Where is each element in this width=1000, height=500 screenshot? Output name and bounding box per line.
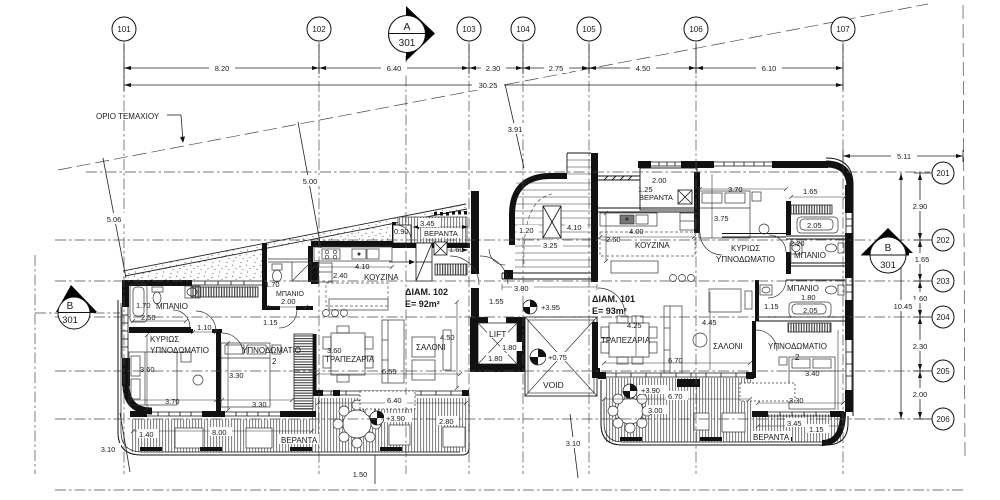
veranda north 102 compartment 0.90 xyxy=(393,225,411,243)
svg-text:B: B xyxy=(885,243,892,254)
kitchen 102 north wall xyxy=(311,241,392,247)
dim line 1.60 hall 102 xyxy=(448,249,468,251)
svg-text:107: 107 xyxy=(836,25,850,34)
west wall black lower segment xyxy=(122,358,130,386)
svg-text:2.05: 2.05 xyxy=(807,221,822,230)
svg-text:2.20: 2.20 xyxy=(790,239,805,248)
svg-text:2.75: 2.75 xyxy=(549,64,564,73)
grid line 202 horizontal xyxy=(55,239,930,241)
apt101 north windows xyxy=(651,162,772,166)
apt102 north wall xyxy=(122,280,192,286)
svg-text:3.70: 3.70 xyxy=(728,185,743,194)
stair top edge xyxy=(567,153,591,173)
svg-text:6.40: 6.40 xyxy=(387,64,402,73)
svg-text:+3.90: +3.90 xyxy=(386,414,405,423)
stair treads xyxy=(515,160,591,267)
svg-text:301: 301 xyxy=(62,315,78,326)
svg-text:ΚΟΥΖΙΝΑ: ΚΟΥΖΙΝΑ xyxy=(364,273,399,282)
apt101 east wall segments xyxy=(845,185,853,213)
dim line 1.65 bath 101 xyxy=(791,196,845,198)
dim line 6.40 veranda 102 xyxy=(318,402,466,404)
sofa 101 xyxy=(664,306,682,373)
stipple band top slanted xyxy=(123,204,470,280)
grid bubble 102 xyxy=(307,17,331,41)
svg-text:3.25: 3.25 xyxy=(543,241,558,250)
grid line 105 vertical xyxy=(588,42,590,474)
dim text 8.20 xyxy=(209,62,235,73)
fridge 101 xyxy=(680,213,695,230)
dim text 3.10 left xyxy=(95,443,121,454)
dim line 2.60 kitchen 101 vertical xyxy=(605,213,607,261)
right dimension line 5.11 xyxy=(843,155,963,157)
toilet bath1 102 xyxy=(152,287,163,292)
svg-text:1.20: 1.20 xyxy=(519,226,534,235)
svg-text:2.30: 2.30 xyxy=(486,64,501,73)
stair eye x-box xyxy=(543,206,561,238)
veranda 101 north walls xyxy=(598,168,697,210)
dim text 2.30 right xyxy=(907,340,933,351)
wall between bedrooms 102 xyxy=(216,331,221,413)
bathtub bath1 101 xyxy=(797,217,838,233)
dim line 6.70 living 101 xyxy=(604,362,750,364)
lift interior x xyxy=(478,323,517,364)
svg-text:3.75: 3.75 xyxy=(714,214,729,223)
bedroom south wall black segments xyxy=(130,411,147,417)
bedroom2 101 corner arc thick xyxy=(822,412,843,443)
svg-text:8.20: 8.20 xyxy=(215,64,230,73)
dim 5.00 slanted line xyxy=(298,122,321,248)
bath1 101 partition wall xyxy=(786,201,791,235)
svg-text:2.80: 2.80 xyxy=(439,417,454,426)
dim text 5.11 xyxy=(891,150,917,161)
wall bedroom2 to living 102 xyxy=(313,334,317,396)
wardrobe hatch hall 102 xyxy=(435,264,467,275)
level text +3.90 veranda 101 xyxy=(639,385,667,395)
room label veranda 102 xyxy=(279,434,319,445)
dim text 5.00 xyxy=(297,175,323,186)
svg-text:ΔΙΑΜ. 101: ΔΙΑΜ. 101 xyxy=(592,294,635,304)
svg-text:E= 92m²: E= 92m² xyxy=(405,299,440,309)
svg-text:ΒΕΡΑΝΤΑ: ΒΕΡΑΝΤΑ xyxy=(639,193,673,202)
dim line 4.45 living 101 vertical xyxy=(709,292,711,370)
stair dims xyxy=(517,225,539,235)
svg-text:205: 205 xyxy=(936,367,950,376)
nightstand master 101 xyxy=(752,192,761,201)
svg-text:ΥΠΝΟΔΩΜΑΤΙΟ: ΥΠΝΟΔΩΜΑΤΙΟ xyxy=(242,346,301,355)
bathtub bath1 102 xyxy=(130,284,147,322)
dim 6.40 veranda 102 xyxy=(385,395,407,405)
svg-text:ΜΠΑΝΙΟ: ΜΠΑΝΙΟ xyxy=(787,284,819,293)
svg-text:2.30: 2.30 xyxy=(913,342,928,351)
dim line 1.10 corridor 102 xyxy=(193,331,216,333)
dim text 1.65 right xyxy=(909,253,935,264)
svg-text:3.30: 3.30 xyxy=(252,400,267,409)
property line right vertical xyxy=(963,5,965,456)
dim text 4.50 xyxy=(630,62,656,73)
dim line 3.30 bedroom2 102 xyxy=(222,399,292,401)
svg-text:ΚΟΥΖΙΝΑ: ΚΟΥΖΙΝΑ xyxy=(635,241,670,250)
nightstand bed2 102 xyxy=(272,345,281,354)
left datum vertical xyxy=(34,255,36,474)
dim line 3.30 bedroom2 102 vertical xyxy=(227,343,229,410)
dining table 102 xyxy=(331,333,365,375)
dim line 4.25 dining 101 vertical xyxy=(635,318,637,356)
svg-text:ΥΠΝΟΔΩΜΑΤΙΟ: ΥΠΝΟΔΩΜΑΤΙΟ xyxy=(768,342,827,351)
svg-text:2.00: 2.00 xyxy=(913,390,928,399)
corridor 3.80 dim line xyxy=(502,284,597,290)
veranda 102 round table xyxy=(343,410,371,438)
veranda 101 chairs xyxy=(608,389,652,433)
bar stools 101 xyxy=(670,275,677,282)
door arc apt102 entrance xyxy=(480,256,508,284)
dim text 6.40 xyxy=(381,62,407,73)
svg-text:E= 93m²: E= 93m² xyxy=(592,306,627,316)
dim 2.80 veranda 102 xyxy=(437,416,459,426)
section line B left horizontal xyxy=(35,312,120,314)
svg-text:ΣΑΛΟΝΙ: ΣΑΛΟΝΙ xyxy=(416,343,446,352)
svg-text:1.70: 1.70 xyxy=(136,301,151,310)
bed master 101 xyxy=(699,191,750,238)
bathtub bath2 101 xyxy=(789,302,831,317)
dim text 2.30 xyxy=(481,62,506,73)
bath2 102 south wall xyxy=(262,306,280,310)
wardrobe hatch master 101 xyxy=(788,205,832,214)
grid bubble 101 xyxy=(112,17,136,41)
svg-text:2: 2 xyxy=(272,357,277,366)
svg-text:202: 202 xyxy=(936,236,950,245)
armchair 102 xyxy=(412,337,435,357)
svg-text:6.70: 6.70 xyxy=(668,392,683,401)
wardrobe hatch bedroom2 101 xyxy=(788,323,831,332)
svg-text:ΚΥΡΙΩΣ: ΚΥΡΙΩΣ xyxy=(150,335,179,344)
svg-text:1.80: 1.80 xyxy=(502,343,517,352)
level marker void +0.75 xyxy=(530,349,546,365)
svg-text:1.80: 1.80 xyxy=(488,354,503,363)
tv console 102 xyxy=(443,330,451,370)
planters veranda 101 xyxy=(620,437,792,441)
dim text 2.90 xyxy=(907,200,933,211)
dim line 2.20 bath1 101 vertical xyxy=(790,240,792,263)
dim text 30.25 xyxy=(472,79,504,90)
svg-text:1.70: 1.70 xyxy=(265,280,280,289)
west wall window xyxy=(122,307,128,358)
door arc bath1 101 xyxy=(769,235,786,252)
grid line 101 vertical xyxy=(123,42,125,474)
kitchen island 102 xyxy=(329,299,388,310)
label lift xyxy=(487,329,508,339)
dim text 2.00 right xyxy=(907,388,933,399)
svg-text:ΤΡΑΠΕΖΑΡΙΑ: ΤΡΑΠΕΖΑΡΙΑ xyxy=(325,355,375,364)
svg-text:VOID: VOID xyxy=(543,380,564,390)
grid line 204 horizontal xyxy=(55,316,930,318)
sink bath1 102 xyxy=(185,286,200,298)
bed2 101 xyxy=(789,357,835,409)
bath1 102 south wall xyxy=(129,327,191,331)
svg-text:4.50: 4.50 xyxy=(440,333,455,342)
svg-text:LIFT: LIFT xyxy=(489,329,506,339)
section line A vertical xyxy=(405,56,407,474)
window x-box veranda 101 xyxy=(678,190,692,204)
svg-text:1.60: 1.60 xyxy=(449,245,464,254)
bath2 102 west wall xyxy=(262,243,267,310)
svg-text:104: 104 xyxy=(516,25,530,34)
dim 6.70 veranda 101 xyxy=(666,391,688,401)
west wall black top segment xyxy=(122,280,129,307)
svg-text:+0.75: +0.75 xyxy=(548,353,567,362)
door arc veranda n 102 xyxy=(396,225,411,240)
grid bubble 104 xyxy=(511,17,535,41)
chairs dining 102 xyxy=(323,337,331,349)
dim line 3.40 bedroom2 101 vertical xyxy=(837,330,839,410)
veranda 102 parapet outline rounded xyxy=(118,300,469,455)
room label veranda 101 xyxy=(751,431,791,442)
svg-text:+3.95: +3.95 xyxy=(541,303,560,312)
svg-text:301: 301 xyxy=(880,260,896,271)
grid line 205 horizontal xyxy=(55,370,930,372)
stair right wall xyxy=(591,153,598,282)
svg-text:3.40: 3.40 xyxy=(805,369,820,378)
svg-text:2.60: 2.60 xyxy=(606,235,621,244)
void x diagonals xyxy=(525,317,597,396)
svg-text:105: 105 xyxy=(582,25,596,34)
veranda 101 bbq black xyxy=(677,379,700,387)
dim 3.45 veranda 101 xyxy=(785,418,807,428)
living 101 south window wall xyxy=(601,373,752,377)
svg-text:+3.90: +3.90 xyxy=(641,386,660,395)
svg-text:ΜΠΑΝΙΟ: ΜΠΑΝΙΟ xyxy=(794,251,826,260)
svg-text:4.50: 4.50 xyxy=(636,64,651,73)
bath2 102 top shelf xyxy=(268,258,311,260)
svg-text:0.90: 0.90 xyxy=(394,227,409,236)
svg-text:2.90: 2.90 xyxy=(913,202,928,211)
svg-text:201: 201 xyxy=(936,169,950,178)
svg-text:1.10: 1.10 xyxy=(197,323,212,332)
grid line 102 vertical xyxy=(318,42,320,474)
svg-text:ΟΡΙΟ ΤΕΜΑΧΙΟΥ: ΟΡΙΟ ΤΕΜΑΧΙΟΥ xyxy=(96,112,160,121)
svg-text:3.45: 3.45 xyxy=(787,419,802,428)
svg-text:ΣΑΛΟΝΙ: ΣΑΛΟΝΙ xyxy=(713,342,743,351)
apt101 east wall outer line xyxy=(826,158,853,416)
svg-text:6.70: 6.70 xyxy=(668,356,683,365)
bottom datum horizontal xyxy=(55,489,965,491)
dim line 3.70 master 101 xyxy=(700,188,786,190)
living 102 south window wall xyxy=(316,391,468,395)
grid line 103 vertical xyxy=(468,42,470,474)
svg-text:5.06: 5.06 xyxy=(107,215,122,224)
dim text 2.75 xyxy=(544,62,569,73)
svg-text:3.91: 3.91 xyxy=(508,125,523,134)
svg-text:1.15: 1.15 xyxy=(263,318,278,327)
nightstand master 102 xyxy=(181,352,191,362)
veranda 101 parapet outline rounded xyxy=(601,380,848,445)
dim 3.00 veranda 101 xyxy=(646,405,668,415)
void east wall black xyxy=(592,322,598,368)
grid line 104 vertical xyxy=(522,42,524,474)
svg-text:ΒΕΡΑΝΤΑ: ΒΕΡΑΝΤΑ xyxy=(424,229,458,238)
door arc bath2 102 xyxy=(279,310,297,328)
door arc hall 102 xyxy=(450,256,479,285)
dim 8.00 veranda 102 xyxy=(210,427,232,437)
bath2 101 walls xyxy=(755,280,845,321)
svg-text:30.25: 30.25 xyxy=(479,81,498,90)
grid bubble 107 xyxy=(831,17,855,41)
apt102 east wall lower xyxy=(471,288,479,317)
nightstand bed2 101 xyxy=(779,357,787,365)
grid bubble 206 xyxy=(932,408,954,430)
svg-text:3.60: 3.60 xyxy=(140,365,155,374)
bedroom2 101 south wall xyxy=(752,411,768,417)
dim line 6.55 living 102 xyxy=(318,373,460,375)
apt101 north wall segments xyxy=(638,161,651,168)
apt101 top-right corner wall thick xyxy=(826,164,850,188)
label void xyxy=(541,379,566,390)
svg-text:1.15: 1.15 xyxy=(809,425,824,434)
svg-text:203: 203 xyxy=(936,277,950,286)
dining table 101 xyxy=(609,323,649,357)
svg-text:3.00: 3.00 xyxy=(648,406,663,415)
svg-text:6.40: 6.40 xyxy=(387,396,402,405)
dim line 2.00 bath2 102 xyxy=(267,306,306,308)
shower bath2 102 xyxy=(292,262,311,281)
svg-text:B: B xyxy=(67,301,74,312)
svg-text:8.00: 8.00 xyxy=(212,428,227,437)
svg-text:1.80: 1.80 xyxy=(801,293,816,302)
dim line 4.00 kitchen 101 xyxy=(600,236,694,238)
dim line 6.70 veranda 101 xyxy=(604,398,750,400)
bar stools 102 xyxy=(323,310,330,317)
svg-text:2.00: 2.00 xyxy=(281,297,296,306)
corridor wall 101 xyxy=(755,280,759,321)
right dimension vertical segments line xyxy=(919,173,921,419)
dim text 3.91 xyxy=(502,123,528,134)
level marker veranda101 +3.90 xyxy=(623,384,637,398)
dim line 8.00 veranda 102 xyxy=(133,430,312,432)
entry arrow 102 xyxy=(389,260,415,265)
grid bubble 105 xyxy=(577,17,601,41)
grid line 106 vertical xyxy=(695,42,697,474)
veranda north 102 south wall xyxy=(392,243,470,248)
svg-text:ΜΠΑΝΙΟ: ΜΠΑΝΙΟ xyxy=(156,302,188,311)
svg-text:6.10: 6.10 xyxy=(762,64,777,73)
svg-text:1.50: 1.50 xyxy=(353,470,368,479)
section marker B 301 right xyxy=(861,228,915,273)
kitchen counter 101 xyxy=(600,213,657,226)
dim line 4.50 living 102 vertical xyxy=(456,302,458,388)
top dimension line row1 xyxy=(124,67,843,69)
grid bubble 205 xyxy=(932,360,954,382)
door arc bath2 101 xyxy=(768,280,786,298)
veranda 101 round table xyxy=(617,398,643,424)
level marker veranda102 +3.90 xyxy=(370,411,384,425)
door arc stair left xyxy=(489,249,505,265)
svg-text:102: 102 xyxy=(312,25,326,34)
sink kitchen 102 xyxy=(352,249,366,259)
grid bubble 202 xyxy=(932,229,954,251)
svg-text:101: 101 xyxy=(117,25,131,34)
stipple band outer edge double line xyxy=(123,204,467,276)
veranda 101 south hatch xyxy=(604,378,841,442)
property line diagonal xyxy=(58,4,928,170)
svg-text:2.00: 2.00 xyxy=(652,176,667,185)
dim text 6.10 xyxy=(756,62,782,73)
svg-text:1.65: 1.65 xyxy=(803,187,818,196)
svg-text:3.10: 3.10 xyxy=(566,439,581,448)
svg-text:3.80: 3.80 xyxy=(514,284,529,293)
grid bubble 201 xyxy=(932,162,954,184)
svg-text:ΥΠΝΟΔΩΜΑΤΙΟ: ΥΠΝΟΔΩΜΑΤΙΟ xyxy=(150,346,209,355)
svg-text:301: 301 xyxy=(399,38,416,49)
svg-text:ΥΠΝΟΔΩΜΑΤΙΟ: ΥΠΝΟΔΩΜΑΤΙΟ xyxy=(716,255,775,264)
coffee table 101 xyxy=(693,333,707,347)
kitchen upper dashed 102 xyxy=(326,283,388,306)
dim line 3.75 master 101 vertical xyxy=(711,174,713,238)
door arc master 102 xyxy=(196,311,216,331)
kitchen counter 102 xyxy=(314,247,392,261)
grid bubble 106 xyxy=(684,17,708,41)
stair walk line dashed xyxy=(524,194,552,264)
svg-text:5.11: 5.11 xyxy=(897,152,911,161)
grid line 206 horizontal xyxy=(55,418,930,420)
svg-text:1.15: 1.15 xyxy=(764,302,779,311)
veranda 101 seats xyxy=(694,413,709,430)
svg-text:1.40: 1.40 xyxy=(139,430,154,439)
dim 3.10 left line xyxy=(120,413,130,472)
void walls xyxy=(525,317,597,396)
cooktop kitchen 102 xyxy=(322,249,340,259)
entrance closet 102 xyxy=(416,243,432,281)
svg-text:3.45: 3.45 xyxy=(420,219,435,228)
door arc bedroom2 102 xyxy=(222,333,243,354)
top dimension line row2 total 30.25 xyxy=(124,84,843,86)
toilet bath2 101 xyxy=(838,285,844,295)
svg-text:5.00: 5.00 xyxy=(303,177,318,186)
svg-text:206: 206 xyxy=(936,415,950,424)
veranda 102 south hatch left part xyxy=(131,398,468,452)
level marker corridor +3.95 xyxy=(523,300,537,314)
svg-text:3.30: 3.30 xyxy=(789,396,804,405)
west wall corner arc thick xyxy=(126,384,152,411)
svg-text:3.30: 3.30 xyxy=(229,371,244,380)
svg-text:4.10: 4.10 xyxy=(567,223,582,232)
dim line 3.60 master 102 vertical xyxy=(146,335,148,409)
section marker A 301 xyxy=(389,6,436,61)
dim 3.91 slanted line xyxy=(505,84,524,168)
door arc master 101 xyxy=(700,233,722,255)
veranda 102 chairs xyxy=(333,400,381,448)
door arc apt101 entrance xyxy=(598,288,625,315)
stair bottom wall xyxy=(502,273,597,279)
master101 south wall xyxy=(722,234,786,238)
lamp master 102 xyxy=(193,375,203,385)
dim text 1.60 right xyxy=(907,292,933,303)
bedroom south windows xyxy=(147,412,280,416)
window x-box hall 102 xyxy=(434,242,447,255)
leader ΟΡΙΟ ΤΕΜΑΧΙΟΥ xyxy=(167,114,181,116)
sink bath2 101 xyxy=(760,285,772,295)
svg-text:204: 204 xyxy=(936,313,950,322)
kitchen 102 column xyxy=(311,262,319,284)
sofa 102 xyxy=(382,320,404,383)
planters veranda 102 xyxy=(140,447,402,451)
svg-text:ΒΕΡΑΝΤΑ: ΒΕΡΑΝΤΑ xyxy=(281,436,318,445)
dims lift xyxy=(500,342,522,352)
level text +3.90 veranda 102 xyxy=(384,413,412,423)
svg-text:2.50: 2.50 xyxy=(141,313,156,322)
svg-text:106: 106 xyxy=(689,25,703,34)
chairs dining 101 xyxy=(601,327,609,338)
dim line 2.50 bath1 102 xyxy=(133,320,186,322)
dim line 3.45 veranda n 102 xyxy=(413,226,468,228)
